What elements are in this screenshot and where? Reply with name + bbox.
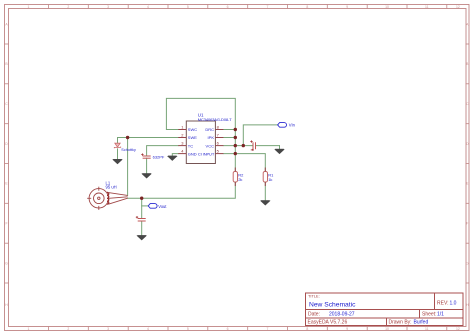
svg-text:2k: 2k [238,177,242,182]
svg-text:MC34063AG-D08-T: MC34063AG-D08-T [198,117,232,122]
svg-text:VIn: VIn [289,123,296,128]
svg-text:Schottky: Schottky [121,148,136,152]
svg-text:1k: 1k [268,177,272,182]
svg-text:95 uH: 95 uH [106,185,117,190]
svg-text:IPK: IPK [208,135,215,140]
svg-text:4: 4 [147,5,149,9]
svg-text:3: 3 [107,327,109,331]
svg-text:G: G [5,261,8,265]
svg-text:VCC: VCC [206,143,215,148]
svg-text:7: 7 [267,327,269,331]
svg-text:4: 4 [147,327,149,331]
svg-text:9: 9 [346,327,348,331]
svg-text:Date:: Date: [308,312,320,318]
svg-text:SWE: SWE [188,135,197,140]
svg-text:F: F [5,222,7,226]
svg-text:1: 1 [27,327,29,331]
svg-text:10: 10 [385,327,389,331]
svg-text:CI INPUT: CI INPUT [198,151,215,156]
svg-text:G: G [466,261,469,265]
svg-text:TITLE:: TITLE: [308,294,320,299]
svg-text:12: 12 [456,327,460,331]
svg-text:REV:: REV: [437,301,448,307]
svg-text:2: 2 [67,5,69,9]
svg-text:DRC: DRC [205,127,214,132]
svg-text:5: 5 [187,327,189,331]
svg-text:SWC: SWC [188,127,197,132]
svg-text:TC: TC [188,143,193,148]
svg-text:2: 2 [67,327,69,331]
svg-text:1.0: 1.0 [450,301,457,307]
svg-text:11: 11 [425,5,429,9]
svg-text:2018-09-27: 2018-09-27 [329,312,355,318]
svg-text:7: 7 [267,5,269,9]
svg-text:1: 1 [27,5,29,9]
svg-text:6: 6 [227,5,229,9]
svg-text:GND: GND [188,151,197,156]
svg-text:Sheet:: Sheet: [422,312,436,318]
svg-text:11: 11 [425,327,429,331]
svg-text:Drawn By:: Drawn By: [389,320,412,326]
svg-text:Vout: Vout [158,204,167,209]
svg-text:5: 5 [187,5,189,9]
svg-text:632PF: 632PF [153,155,165,160]
svg-text:3: 3 [107,5,109,9]
svg-text:8: 8 [306,327,308,331]
svg-text:9: 9 [346,5,348,9]
svg-text:New Schematic: New Schematic [309,302,356,309]
svg-text:8: 8 [306,5,308,9]
svg-text:12: 12 [456,5,460,9]
svg-text:EasyEDA V5.7.26: EasyEDA V5.7.26 [308,320,348,326]
svg-text:1/1: 1/1 [437,312,444,318]
svg-text:10: 10 [385,5,389,9]
svg-text:6: 6 [227,327,229,331]
svg-text:Burfed: Burfed [414,320,429,326]
svg-text:F: F [466,222,468,226]
